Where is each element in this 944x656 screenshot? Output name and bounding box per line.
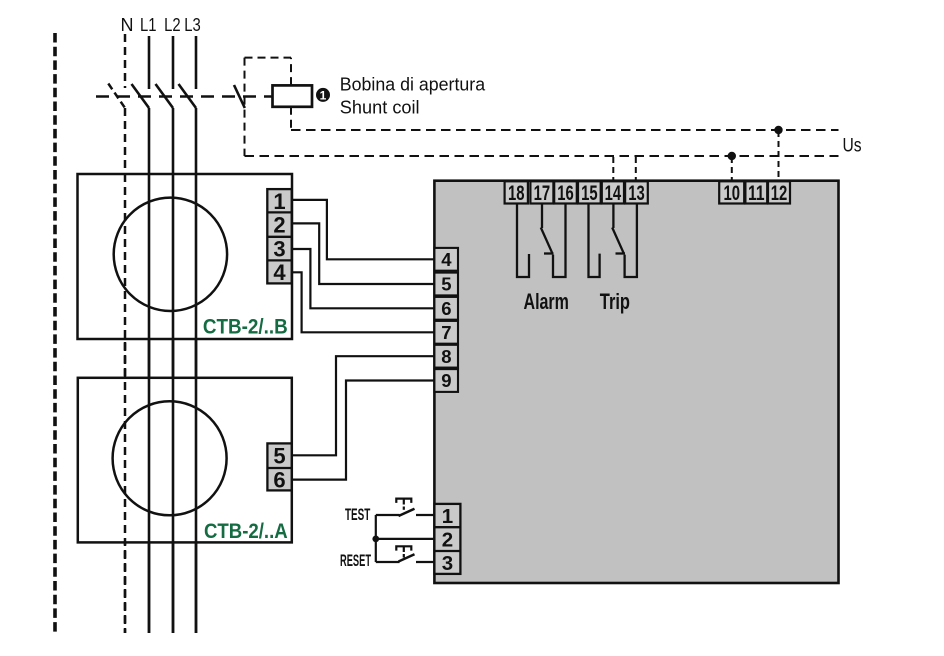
CT B terminal divider 2/3 — [267, 236, 291, 238]
trip contact fixed 13 — [625, 203, 637, 277]
svg-text:1: 1 — [320, 88, 327, 102]
terminal 13 — [625, 181, 648, 205]
svg-text:CTB-2/..B: CTB-2/..B — [203, 315, 288, 339]
alarm contact moving arm — [541, 228, 553, 254]
svg-text:Alarm: Alarm — [524, 289, 569, 314]
svg-text:2: 2 — [273, 213, 285, 238]
svg-text:1: 1 — [442, 505, 453, 528]
svg-text:18: 18 — [508, 182, 525, 205]
wire CT-A 6 to relay 9 — [292, 381, 435, 480]
svg-text:10: 10 — [723, 182, 740, 205]
reset actuator stem — [403, 547, 405, 552]
svg-text:11: 11 — [748, 182, 765, 205]
svg-text:8: 8 — [441, 346, 451, 367]
svg-text:7: 7 — [441, 322, 451, 343]
auxiliary contact blade for shunt coil — [234, 85, 245, 108]
trip contact common 14 — [612, 203, 614, 228]
supply wire Us upper (dashed) — [291, 129, 839, 131]
wire L3 (lower) — [195, 108, 198, 633]
svg-text:6: 6 — [441, 298, 451, 319]
svg-text:Us: Us — [843, 136, 862, 157]
relay terminal 5 — [434, 273, 458, 296]
phase lines over CT boxes (redraw solid segments) — [149, 174, 196, 633]
terminal 14 — [602, 181, 624, 205]
neutral dashed over CT boxes — [124, 174, 127, 633]
relay terminals 1-3 block — [434, 504, 460, 574]
wire CT-B 4 to relay 7 — [292, 272, 434, 332]
svg-text:12: 12 — [771, 182, 788, 205]
trip contact moving arm — [612, 228, 624, 254]
supply wire Us lower (dashed) — [245, 155, 839, 157]
svg-text:3: 3 — [273, 237, 285, 262]
terminal 11 — [745, 181, 767, 205]
svg-text:L1: L1 — [140, 15, 157, 35]
relay terminal 6 — [434, 297, 458, 320]
relay terminal 4 — [434, 248, 458, 271]
terminal 18 — [505, 181, 528, 205]
note marker 1 (filled circle with white 1) — [316, 88, 330, 102]
wire N (dashed neutral line, upper) — [124, 34, 127, 88]
svg-text:2: 2 — [442, 529, 453, 552]
reset push-button actuator cap — [396, 546, 411, 550]
svg-text:15: 15 — [581, 182, 598, 205]
link wire TEST-RESET — [375, 515, 377, 562]
shunt coil box — [273, 85, 313, 106]
relay terminal 8 — [434, 345, 458, 368]
test push-button actuator cap — [396, 499, 411, 503]
dashed enclosure left edge — [244, 58, 246, 156]
CT A terminal divider 5/6 — [267, 467, 291, 469]
svg-text:9: 9 — [441, 370, 451, 391]
dashed drop to terminal 10 — [731, 157, 733, 182]
wire from coil bottom (dashed) — [290, 107, 292, 130]
wire CT-A 5 to relay 8 — [292, 356, 435, 455]
wire CT-B 3 to relay 6 — [292, 249, 434, 308]
relay terminal divider 1/2 — [434, 526, 460, 528]
wire CT-B 2 to relay 5 — [292, 223, 434, 284]
CT B terminals 1-4 block — [267, 189, 291, 283]
breaker pole L1 blade — [132, 84, 150, 108]
wire to terminal 2 — [376, 538, 435, 540]
test wire left — [376, 514, 400, 516]
svg-text:5: 5 — [441, 274, 451, 295]
dashed drop to terminal 12 — [778, 131, 780, 182]
breaker pole L3 blade — [179, 84, 197, 108]
junction dot on upper supply wire — [774, 126, 782, 134]
left boundary dashed line — [53, 33, 57, 633]
dashed drop to terminal 13 — [635, 157, 637, 182]
svg-text:CTB-2/..A: CTB-2/..A — [204, 519, 288, 543]
terminal 12 — [768, 181, 790, 205]
terminal 10 — [719, 181, 744, 205]
CT B terminal divider 1/2 — [267, 211, 291, 213]
CT B terminal divider 3/4 — [267, 259, 291, 261]
breaker pole L2 blade — [156, 84, 174, 108]
junction dot on lower supply wire — [728, 152, 736, 160]
dashed enclosure right edge to coil — [290, 58, 292, 86]
svg-text:4: 4 — [273, 260, 286, 285]
wire L2 (upper) — [172, 36, 175, 89]
relay terminal divider 2/3 — [434, 550, 460, 552]
alarm contact common 17 — [541, 203, 543, 228]
svg-text:Bobina di apertura: Bobina di apertura — [340, 74, 486, 94]
test actuator stem dash — [403, 507, 405, 510]
CT A window circle — [113, 401, 227, 515]
junction dot to terminal 2 — [372, 536, 379, 543]
CT A terminals 5-6 block — [267, 443, 291, 490]
reset wire right — [416, 561, 434, 563]
wire L3 (upper) — [195, 36, 198, 89]
svg-text:6: 6 — [273, 467, 285, 492]
svg-text:L2: L2 — [164, 15, 181, 35]
wire N (dashed neutral line, lower) — [124, 108, 127, 633]
relay terminal 7 — [434, 321, 458, 344]
breaker pole N blade (dashed) — [108, 84, 125, 109]
svg-text:14: 14 — [605, 182, 622, 205]
svg-text:1: 1 — [273, 189, 285, 214]
svg-text:5: 5 — [273, 444, 285, 469]
test wire right — [416, 514, 434, 516]
CT B core box — [78, 174, 293, 339]
wire L2 (lower) — [172, 108, 175, 633]
wire L1 (upper) — [148, 36, 151, 89]
test actuator stem — [403, 499, 405, 505]
wire CT-B 1 to relay 4 — [292, 200, 434, 259]
svg-text:4: 4 — [441, 249, 452, 270]
relay unit box — [434, 181, 838, 583]
svg-text:N: N — [121, 15, 134, 35]
terminal 15 — [578, 181, 601, 205]
CT B wires through window — [124, 174, 126, 339]
trip contact arm tick — [616, 252, 626, 254]
terminal 17 — [530, 181, 553, 205]
svg-text:TEST: TEST — [345, 506, 370, 524]
wire L1 (lower) — [148, 108, 151, 633]
svg-text:16: 16 — [557, 182, 574, 205]
svg-text:17: 17 — [534, 182, 551, 205]
trip contact fixed 15 — [589, 203, 600, 277]
dashed enclosure top edge — [245, 57, 292, 59]
dashed drop to terminal 14 — [612, 157, 614, 182]
alarm contact arm tick — [544, 252, 554, 254]
reset switch moving bar — [399, 554, 415, 561]
svg-text:Shunt coil: Shunt coil — [340, 97, 420, 117]
terminal 16 — [554, 181, 577, 205]
svg-text:L3: L3 — [184, 15, 201, 35]
svg-text:RESET: RESET — [340, 552, 371, 570]
alarm contact fixed 16 — [553, 203, 566, 277]
test switch moving bar — [399, 509, 415, 516]
breaker mechanical linkage (dashed) — [96, 95, 273, 97]
reset actuator stem dash — [403, 554, 405, 558]
CT A core box — [78, 378, 292, 543]
relay terminal 9 — [434, 369, 458, 392]
alarm contact fixed 18 — [517, 203, 529, 277]
reset wire left — [376, 561, 400, 563]
svg-text:Trip: Trip — [600, 289, 630, 314]
svg-text:3: 3 — [442, 552, 453, 575]
CT B window circle — [114, 198, 227, 311]
svg-text:13: 13 — [628, 182, 645, 205]
